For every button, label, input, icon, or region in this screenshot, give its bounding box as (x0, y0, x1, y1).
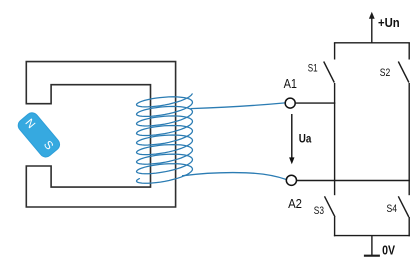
terminal A1 (285, 98, 295, 108)
bridge left branch lower wire (334, 217, 336, 236)
coil winding (137, 94, 193, 183)
bridge left branch middle wire (334, 83, 336, 195)
Ua arrow shaft (291, 114, 293, 159)
svg-text:S1: S1 (308, 63, 318, 75)
0V stub (371, 236, 373, 256)
top rail (334, 42, 410, 44)
svg-text:0V: 0V (382, 244, 395, 258)
magnetic core (26, 62, 175, 207)
terminal A2 (286, 175, 296, 185)
bridge right branch upper wire (408, 43, 410, 60)
wire coil to A1 (191, 103, 286, 109)
0V ground bar (364, 255, 380, 257)
+Un arrow shaft (371, 16, 373, 42)
svg-text:A1: A1 (284, 76, 297, 91)
bridge left branch upper wire (334, 43, 336, 60)
svg-text:S4: S4 (387, 203, 398, 215)
Ua arrowhead (289, 157, 294, 164)
wire A1 to bridge left branch (295, 102, 335, 104)
switch S3 (325, 196, 336, 217)
bottom rail (334, 235, 410, 237)
svg-text:Ua: Ua (299, 131, 312, 145)
bridge right branch lower wire (408, 217, 410, 236)
svg-text:A2: A2 (288, 196, 302, 211)
bridge right branch middle wire (408, 83, 410, 195)
svg-text:S2: S2 (380, 67, 391, 79)
svg-text:S3: S3 (314, 205, 324, 217)
magnet body (16, 110, 62, 159)
switch S4 (398, 196, 409, 217)
svg-text:+Un: +Un (378, 16, 400, 30)
switch S1 (324, 62, 335, 83)
wire A2 rail to bridge right branch (297, 180, 410, 182)
wire coil to A2 (182, 173, 286, 180)
switch S2 (398, 62, 409, 83)
+Un arrowhead (369, 12, 375, 19)
